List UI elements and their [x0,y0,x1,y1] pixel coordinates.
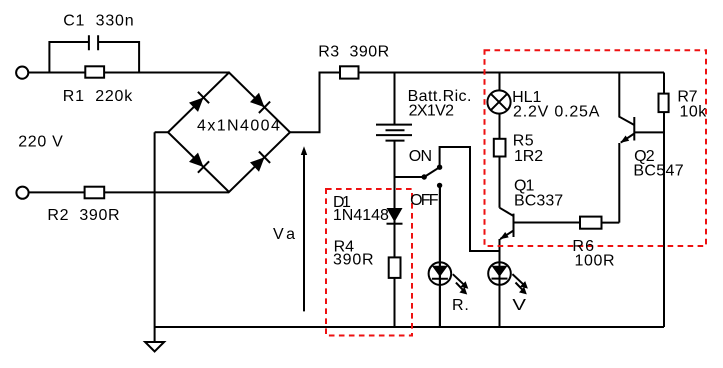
svg-text:1R2: 1R2 [514,148,543,165]
svg-text:C1 330n: C1 330n [63,12,133,29]
svg-text:1N4148: 1N4148 [333,207,389,224]
svg-text:220 V: 220 V [18,133,63,150]
svg-text:4x1N4004: 4x1N4004 [197,118,280,135]
svg-text:R3 390R: R3 390R [318,44,389,61]
svg-text:R2 390R: R2 390R [47,207,119,224]
svg-text:2X1V2: 2X1V2 [409,103,454,120]
svg-text:10k: 10k [680,104,708,121]
svg-text:R1 220k: R1 220k [63,88,133,105]
svg-text:V: V [512,297,526,314]
svg-text:ON: ON [409,148,432,165]
svg-text:390R: 390R [333,251,374,268]
svg-text:2.2V 0.25A: 2.2V 0.25A [513,103,600,120]
svg-text:BC337: BC337 [514,193,563,210]
svg-text:R.: R. [452,297,469,314]
svg-text:100R: 100R [575,253,615,270]
svg-text:OFF: OFF [410,192,439,209]
svg-text:BC547: BC547 [633,163,683,180]
